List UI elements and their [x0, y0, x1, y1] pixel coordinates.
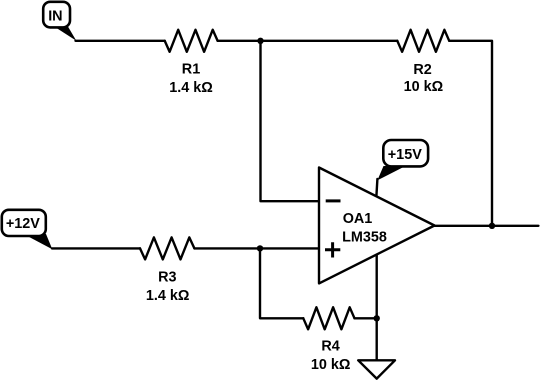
svg-text:OA1: OA1	[343, 211, 373, 227]
resistor R2	[397, 30, 449, 52]
junction node A (feedback, top)	[257, 38, 263, 44]
resistor R1	[165, 30, 218, 52]
flag IN	[43, 2, 76, 41]
wire R1 to R2	[218, 40, 398, 42]
wire node B down to R4	[260, 248, 303, 318]
plus input symbol	[325, 242, 340, 257]
minus input symbol	[326, 199, 341, 202]
svg-text:+15V: +15V	[388, 147, 422, 163]
svg-text:10 kΩ: 10 kΩ	[404, 79, 444, 95]
resistor R3	[140, 237, 194, 259]
wire R2 to output node	[449, 41, 492, 226]
junction node B (R3 / R4)	[257, 245, 263, 251]
wire R4 to node C	[355, 317, 377, 319]
wire IN to R1	[76, 40, 165, 42]
wire R3 to noninverting input	[194, 247, 319, 249]
wire output	[435, 225, 539, 227]
flag +15V	[377, 140, 428, 180]
wire feedback node to inverting input	[261, 41, 320, 201]
junction node C (R4 / ground)	[374, 315, 380, 321]
wire +12V to R3	[52, 247, 140, 249]
svg-text:R1: R1	[182, 62, 200, 78]
svg-text:10 kΩ: 10 kΩ	[311, 357, 351, 373]
resistor R4	[303, 307, 354, 329]
svg-text:+12V: +12V	[6, 216, 40, 232]
wire op-amp bottom to ground	[376, 255, 378, 361]
svg-text:1.4 kΩ: 1.4 kΩ	[169, 80, 213, 96]
svg-text:R4: R4	[321, 339, 339, 355]
junction node D (output / R2)	[489, 223, 495, 229]
svg-text:R3: R3	[158, 270, 176, 286]
flag +12V	[2, 210, 53, 249]
svg-text:IN: IN	[48, 9, 62, 25]
ground	[358, 360, 395, 378]
op-amp OA1 (LM358)	[319, 168, 435, 284]
svg-text:LM358: LM358	[342, 229, 387, 245]
svg-text:R2: R2	[413, 62, 431, 78]
svg-text:1.4 kΩ: 1.4 kΩ	[146, 288, 190, 304]
wire +15V to op-amp top	[376, 179, 377, 196]
